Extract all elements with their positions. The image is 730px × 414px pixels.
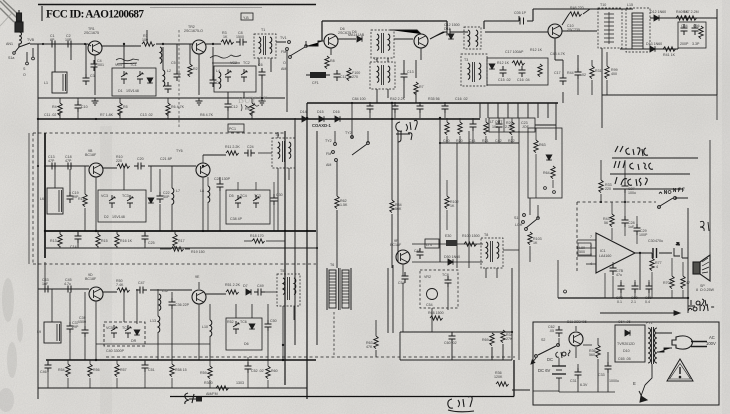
wires row2 verticals [55, 155, 203, 231]
svg-text:R6 4.7K: R6 4.7K [171, 105, 185, 109]
wire C20 to TR7 [148, 165, 196, 167]
svg-text:TVB: TVB [27, 38, 35, 42]
LT4 box [425, 239, 439, 248]
resistor R4 [58, 103, 62, 116]
antenna whip [15, 10, 23, 47]
handwritten S4 [185, 393, 196, 404]
wire osc down [403, 264, 448, 332]
svg-text:TY6: TY6 [176, 149, 183, 153]
svg-text:47: 47 [686, 281, 690, 285]
wire row3 lower [96, 343, 210, 345]
bus D y103 [307, 102, 558, 104]
svg-text:R69: R69 [482, 338, 489, 342]
dashed vertical opamp box [576, 202, 578, 273]
warning triangle [667, 359, 693, 381]
svg-text:R11 2.2K: R11 2.2K [225, 145, 240, 149]
svg-text:2SC1675: 2SC1675 [84, 31, 99, 35]
svg-text:R4: R4 [52, 105, 57, 109]
svg-text:IC1: IC1 [600, 249, 606, 253]
wire TR5 right [555, 9, 597, 60]
AC plug [672, 336, 707, 349]
resistor R60 [266, 366, 270, 379]
svg-text:R17: R17 [178, 239, 185, 243]
svg-text:R64: R64 [543, 171, 550, 175]
capacitor C5 [174, 70, 181, 81]
svg-text:0.1: 0.1 [617, 300, 622, 304]
shield box T10 dashed [598, 3, 622, 48]
svg-text:D5: D5 [229, 194, 234, 198]
resistor R79 [681, 276, 685, 289]
capacitor C28m [217, 180, 224, 191]
dashed vertical x334 [333, 312, 335, 355]
svg-text:TC4: TC4 [240, 194, 247, 198]
dashed box lower osc [420, 270, 458, 308]
svg-text:C40: C40 [443, 139, 450, 143]
capacitor C46b [45, 361, 52, 372]
svg-text:R59: R59 [200, 371, 207, 375]
resistor R17 [173, 234, 177, 247]
svg-text:R54: R54 [58, 368, 65, 372]
resistor R14 [83, 194, 87, 207]
bus I y399 [170, 360, 514, 397]
svg-text:TY2: TY2 [345, 131, 352, 135]
svg-text:O: O [23, 73, 26, 77]
svg-text:C54: C54 [398, 281, 405, 285]
vertical x512 [512, 268, 530, 390]
faint scan streak right [722, 0, 730, 414]
resistor R18 [252, 239, 265, 243]
wires audio bottom [605, 253, 683, 298]
wire T1 to switch [276, 41, 286, 43]
svg-text:R19 150: R19 150 [191, 250, 205, 254]
wire R1 to TR2 [156, 43, 192, 45]
wire opamp out [635, 253, 672, 290]
svg-text:C12: C12 [231, 105, 238, 109]
squelch box right [528, 128, 562, 198]
resistor R59 [208, 366, 212, 379]
wire top caps C17 [563, 55, 578, 103]
svg-text:R52: R52 [227, 320, 234, 324]
wire R62 [336, 161, 338, 268]
switch lower contacts wires [287, 41, 306, 112]
wire TR3 right [338, 38, 356, 40]
capacitor C13 [401, 70, 408, 81]
capacitor C45 [64, 286, 75, 293]
wires row3 verticals [45, 262, 199, 360]
svg-text:LT OUT: LT OUT [490, 120, 503, 124]
wire shield left edge dark [44, 133, 46, 258]
transistor TR5 [548, 24, 562, 38]
svg-text:R20: R20 [456, 139, 463, 143]
svg-text:C25: C25 [148, 241, 155, 245]
svg-text:1K: 1K [533, 241, 538, 245]
wire battery [559, 326, 576, 392]
svg-text:C21 8P: C21 8P [160, 157, 173, 161]
capacitor C4 [91, 60, 98, 71]
diode D16 [335, 116, 340, 122]
svg-text:L13: L13 [150, 319, 156, 323]
capacitor C31 [575, 368, 582, 379]
svg-text:L12: L12 [162, 289, 168, 293]
svg-text:C17: C17 [554, 71, 561, 75]
speaker SP [693, 255, 715, 292]
varicap box VC1 [112, 63, 156, 96]
inductor L9 box [37, 322, 61, 343]
svg-text:E: E [633, 381, 636, 386]
diode D12 [654, 15, 659, 21]
TR3 bias parts R8 [330, 48, 332, 55]
resistor R1 [142, 42, 155, 46]
svg-text:2SB405: 2SB405 [574, 320, 587, 324]
svg-text:560: 560 [589, 353, 595, 357]
svg-text:D50 1N60: D50 1N60 [444, 255, 460, 259]
transistor TR9 [192, 290, 206, 304]
svg-text:.05: .05 [549, 329, 554, 333]
left main vertical [37, 44, 39, 399]
op-amp IC1 [577, 233, 635, 273]
resistor R57 [115, 364, 119, 377]
capacitor C28 [622, 216, 629, 227]
right block vertical [602, 48, 717, 128]
svg-text:D2: D2 [104, 215, 109, 219]
diode D13 [650, 46, 655, 52]
svg-text:TC6: TC6 [240, 320, 247, 324]
capacitor C13b [48, 163, 59, 170]
svg-text:47P: 47P [48, 159, 55, 163]
junction blob S4 [196, 397, 202, 402]
junction dots row1 [95, 43, 689, 346]
resistor R103 [528, 232, 532, 245]
resistor R10 [117, 164, 130, 168]
bus D y231 [44, 230, 316, 232]
svg-text:R56: R56 [93, 368, 100, 372]
svg-text:56: 56 [604, 221, 608, 225]
resistor R63 [374, 336, 378, 349]
svg-text:220: 220 [605, 187, 611, 191]
long vertical x392 [392, 103, 398, 268]
capacitor C49 [254, 289, 265, 296]
top right feed wire [454, 16, 548, 32]
svg-text:C66: C66 [693, 24, 700, 28]
svg-text:C33: C33 [598, 373, 605, 377]
border top line [38, 4, 316, 6]
switch S3 [522, 214, 540, 231]
switch S1b TV/FM [286, 41, 308, 59]
handwritten scribble eleven [210, 55, 241, 63]
ground cluster under row1 [92, 98, 99, 105]
transformer T2 [371, 30, 394, 58]
resistor R3 [221, 40, 234, 44]
inductor L1 box [44, 72, 67, 93]
wire R103 [519, 131, 538, 360]
svg-text:D11: D11 [444, 27, 450, 31]
coil L14 [159, 294, 161, 311]
svg-text:C16 .04: C16 .04 [517, 78, 530, 82]
input cap box [578, 243, 591, 255]
svg-text:4.7u: 4.7u [64, 282, 71, 286]
svg-text:1.5K: 1.5K [340, 203, 348, 207]
wire TR4 diagonal up [390, 30, 446, 39]
svg-text:TC5: TC5 [122, 326, 129, 330]
svg-text:T6: T6 [330, 263, 334, 267]
resistor R100 [464, 242, 477, 246]
svg-text:VC3: VC3 [101, 194, 108, 198]
svg-text:T5: T5 [280, 269, 284, 273]
wire TR6 to R10 [103, 167, 117, 169]
svg-text:DC 6V: DC 6V [538, 368, 551, 373]
resistor R5 [118, 103, 122, 116]
mid vertical lines [284, 131, 286, 385]
transistor TR10 [569, 332, 583, 346]
resistor R47 [684, 16, 697, 20]
coil L10 [210, 320, 212, 337]
dashed AN line [577, 201, 656, 203]
varicap box VC4 [104, 322, 145, 353]
svg-text:R51 2.2K: R51 2.2K [225, 283, 241, 287]
svg-text:2SC1675-O: 2SC1675-O [184, 29, 203, 33]
scan band vertical light [100, 126, 112, 414]
AGC box [678, 22, 706, 48]
svg-text:C51: C51 [148, 368, 155, 372]
svg-text:TV1: TV1 [280, 36, 287, 40]
svg-text:AM: AM [326, 163, 331, 167]
jack J1 [674, 242, 682, 258]
resistor R50 [117, 288, 130, 292]
resistor R77 [650, 258, 654, 271]
wire to speaker [675, 198, 688, 313]
wire TR1 to R1 [88, 44, 141, 46]
varicap box VC5m [226, 190, 270, 224]
capacitor C3 [83, 74, 90, 85]
transformer T5 [277, 269, 300, 306]
capacitor C2 [64, 41, 75, 48]
wires T8 [486, 250, 519, 278]
svg-text:R42 2.2K: R42 2.2K [390, 97, 406, 101]
capacitor C18b [64, 163, 75, 170]
svg-text:1SV148: 1SV148 [126, 89, 139, 93]
svg-text:30P: 30P [163, 195, 170, 199]
svg-text:COAXD-1: COAXD-1 [312, 123, 332, 128]
inductor L5 box [40, 188, 63, 214]
capacitor C50 [265, 320, 272, 331]
transformer small top [464, 27, 481, 49]
svg-text:C84 100: C84 100 [352, 97, 366, 101]
svg-text:C52 .02: C52 .02 [251, 369, 264, 373]
junction dots extra [37, 102, 626, 361]
capacitor C7 [165, 82, 172, 93]
capacitor C17 [560, 74, 567, 85]
svg-text:R31: R31 [595, 69, 602, 73]
svg-text:C60 .02: C60 .02 [444, 341, 457, 345]
svg-text:VC5: VC5 [106, 326, 113, 330]
svg-text:L7: L7 [176, 189, 180, 193]
band switch S2 [332, 136, 370, 162]
svg-text:E30: E30 [445, 234, 451, 238]
svg-text:1K: 1K [450, 204, 455, 208]
diode D50 [448, 259, 453, 265]
driver transformer T6 dark [327, 263, 351, 310]
opamp components R43 [610, 214, 614, 227]
svg-text:R16 1K: R16 1K [120, 239, 133, 243]
right edge vertical line [716, 95, 718, 120]
svg-text:BC18F: BC18F [85, 277, 97, 281]
svg-text:C30: C30 [276, 193, 283, 197]
svg-text:3.3P: 3.3P [692, 42, 700, 46]
resistor R7 [414, 82, 418, 95]
svg-text:C20: C20 [137, 157, 144, 161]
transistor TR11 [396, 250, 410, 264]
capacitor C19 [67, 192, 74, 203]
svg-text:10P: 10P [65, 38, 72, 42]
capacitor C11 [334, 70, 341, 81]
earth arrow FG [641, 364, 652, 396]
capacitor C48c [417, 248, 424, 259]
comb verticals between buses [488, 103, 548, 118]
svg-text:L6: L6 [40, 197, 44, 201]
svg-text:T1: T1 [261, 28, 265, 32]
svg-text:R8 4.7K: R8 4.7K [200, 113, 214, 117]
svg-text:D13 1N60: D13 1N60 [646, 42, 662, 46]
wires bus F down [48, 357, 268, 388]
svg-text:120K: 120K [494, 375, 503, 379]
svg-text:C48: C48 [414, 249, 421, 253]
resistor R69 [490, 333, 494, 346]
wire T4 [258, 132, 289, 231]
svg-text:R300: R300 [204, 381, 213, 385]
svg-text:S1a: S1a [8, 56, 14, 60]
svg-text:C13 .02: C13 .02 [140, 113, 153, 117]
detector box [487, 58, 548, 85]
svg-text:PC1: PC1 [229, 127, 236, 131]
capacitor C25 [142, 232, 149, 243]
svg-text:R12 1K: R12 1K [530, 48, 543, 52]
svg-text:C46: C46 [40, 370, 47, 374]
svg-text:FCC ID: AAO1200687: FCC ID: AAO1200687 [46, 9, 144, 21]
svg-text:LA4160: LA4160 [599, 254, 611, 258]
resistor R16 [115, 234, 119, 247]
svg-text:T4: T4 [275, 133, 279, 137]
svg-text:C38 4P: C38 4P [230, 217, 243, 221]
wire y52 [620, 48, 678, 49]
svg-text:C49: C49 [257, 284, 264, 288]
svg-text:R63: R63 [539, 143, 546, 147]
svg-text:100P: 100P [639, 233, 648, 237]
svg-text:C64 .05: C64 .05 [618, 320, 631, 324]
svg-text:1uF: 1uF [42, 282, 49, 286]
coil L2 [163, 70, 165, 87]
svg-text:R46 220: R46 220 [570, 6, 584, 10]
svg-text:C05 1P: C05 1P [514, 11, 527, 15]
svg-text:R60: R60 [271, 369, 278, 373]
svg-text:AM: AM [281, 67, 286, 71]
transformer T3b [461, 54, 487, 86]
svg-text:C47: C47 [138, 281, 145, 285]
svg-text:R13: R13 [50, 239, 57, 243]
rectifier box D10 [615, 320, 645, 362]
wire R102 [446, 180, 448, 230]
resistor R68 [430, 316, 443, 320]
resistor R58 [170, 364, 174, 377]
bus B y121 dark [38, 118, 480, 120]
wires verticals to busB [60, 98, 252, 119]
coil L4 [219, 72, 221, 89]
vertical x440 [439, 118, 441, 262]
svg-text:MA141AB: MA141AB [348, 33, 365, 37]
svg-text:400: 400 [611, 72, 617, 76]
label box Y-B [241, 13, 253, 20]
svg-text:C48 4.7K: C48 4.7K [550, 52, 566, 56]
svg-text:D16: D16 [333, 110, 340, 114]
antenna switch [15, 43, 30, 52]
capacitor C62 [556, 326, 563, 337]
resistor R34 [501, 330, 505, 343]
transistor TR6 [89, 163, 103, 177]
wire R99 [606, 52, 608, 95]
capacitor C54b [402, 272, 409, 283]
svg-text:TC8: TC8 [442, 273, 449, 277]
wire y332 [400, 331, 512, 333]
capacitor C29 [634, 224, 641, 235]
svg-text:47K: 47K [366, 345, 373, 349]
capacitor C51 [142, 361, 149, 372]
switch AN ON/OFF [658, 197, 677, 209]
svg-text:L8: L8 [200, 189, 204, 193]
resistor R40 [676, 16, 689, 20]
capacitor C8 [236, 39, 247, 46]
svg-text:C3: C3 [90, 74, 95, 78]
resistor R15 [96, 234, 100, 247]
power box border [533, 322, 719, 405]
svg-text:D14: D14 [300, 110, 307, 114]
coil L6 [172, 188, 174, 205]
wire bottom power [533, 390, 559, 392]
wires under T1 [228, 58, 271, 98]
wire shield left inner [28, 133, 30, 264]
svg-text:D6: D6 [244, 342, 249, 346]
resistor R41 [663, 47, 676, 51]
svg-text:TC3: TC3 [254, 194, 261, 198]
svg-text:J1: J1 [676, 242, 680, 246]
wire TR2 right [206, 43, 221, 45]
svg-text:7: 7 [590, 235, 592, 239]
wire row3 [38, 288, 89, 290]
svg-text:BUY IT: BUY IT [238, 94, 268, 105]
svg-text:C30: C30 [648, 239, 655, 243]
resistor R36p [596, 345, 600, 358]
diode top D11 [448, 34, 454, 39]
capacitor C60 [449, 332, 456, 343]
svg-text:56K: 56K [395, 207, 402, 211]
capacitor C44 [67, 322, 74, 333]
svg-text:100V: 100V [706, 341, 716, 346]
svg-text:D10: D10 [623, 349, 630, 353]
svg-text:FM: FM [326, 152, 331, 156]
varicap box VC2 [98, 190, 146, 222]
wire verticals row1 mid [124, 30, 190, 74]
svg-text:C65 .05: C65 .05 [618, 357, 631, 361]
resistor R33 [599, 180, 603, 193]
component row under busE [443, 118, 515, 143]
svg-text:R7: R7 [419, 85, 424, 89]
svg-text:B11: B11 [567, 320, 573, 324]
svg-text:C36 22P: C36 22P [175, 303, 190, 307]
capacitor C33 [605, 362, 612, 373]
shield dashed box middle [33, 133, 316, 264]
svg-text:C17 100AP: C17 100AP [505, 50, 524, 54]
svg-text:TY2: TY2 [325, 139, 332, 143]
handwritten C107 [396, 120, 417, 142]
capacitor C12 [225, 100, 232, 111]
